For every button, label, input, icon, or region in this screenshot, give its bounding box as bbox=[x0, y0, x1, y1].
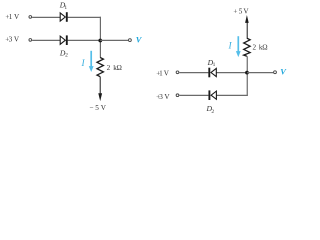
svg-text:2kΩ: 2kΩ bbox=[253, 43, 268, 51]
wire vertical from D1 corner down through junction to resistor bbox=[99, 17, 101, 58]
terminal output V (right) bbox=[274, 71, 277, 74]
wire +1V terminal to diode D1 bbox=[32, 16, 60, 18]
wire +3V terminal to diode D2 (right) bbox=[179, 94, 208, 96]
wire diode D1 anode to junction (right) bbox=[216, 72, 247, 74]
wire +5V arrow down to resistor bbox=[246, 22, 248, 38]
resistor 2 kOhm (left) bbox=[97, 58, 103, 77]
svg-text:2: 2 bbox=[211, 109, 214, 115]
svg-text:1: 1 bbox=[213, 62, 216, 68]
supply arrowhead from +5 V bbox=[245, 15, 249, 23]
current arrow I (left, blue) bbox=[89, 51, 94, 72]
wire vertical from resistor through junction down to D2 corner bbox=[246, 56, 248, 96]
junction node dot (right) bbox=[245, 71, 249, 75]
svg-text:+5V: +5V bbox=[233, 8, 249, 16]
svg-text:+1V: +1V bbox=[5, 13, 20, 21]
svg-text:+1V: +1V bbox=[156, 70, 170, 78]
wire diode D1 cathode to corner bbox=[68, 16, 101, 18]
svg-text:V: V bbox=[280, 67, 287, 77]
wire diode D2 anode to vertical branch corner (right) bbox=[216, 94, 247, 96]
svg-text:+3V: +3V bbox=[156, 93, 170, 101]
svg-text:1: 1 bbox=[64, 5, 67, 11]
svg-text:2: 2 bbox=[65, 53, 68, 59]
diode D1 (right circuit, reversed) bbox=[209, 68, 216, 78]
terminal output V (left) bbox=[129, 39, 132, 42]
svg-text:V: V bbox=[136, 35, 143, 45]
wire +1V terminal to diode D1 (right) bbox=[179, 72, 208, 74]
svg-text:+3V: +3V bbox=[5, 36, 20, 44]
current arrow I (right, blue) bbox=[236, 36, 241, 57]
terminal +1 V input (right) bbox=[176, 71, 179, 74]
wire resistor to -5V supply arrow bbox=[99, 77, 101, 94]
supply arrowhead to -5 V bbox=[98, 93, 102, 101]
wire junction to output terminal V (right) bbox=[247, 72, 273, 74]
terminal +3 V input (left) bbox=[29, 39, 32, 42]
svg-text:2kΩ: 2kΩ bbox=[107, 64, 122, 72]
diode D2 (right circuit, reversed) bbox=[209, 90, 216, 100]
terminal +1 V input (left) bbox=[29, 16, 32, 19]
terminal +3 V input (right) bbox=[176, 94, 179, 97]
resistor 2 kOhm (right) bbox=[244, 38, 250, 56]
wire +3V terminal to diode D2 bbox=[32, 39, 60, 41]
wire junction to output terminal V (left) bbox=[100, 39, 128, 41]
svg-text:−5V: −5V bbox=[89, 104, 106, 112]
diode D2 (left circuit) bbox=[60, 35, 67, 45]
svg-text:I: I bbox=[81, 59, 86, 69]
diode D1 (left circuit) bbox=[60, 12, 67, 22]
wire diode D2 cathode to junction bbox=[68, 39, 101, 41]
svg-text:I: I bbox=[228, 42, 233, 52]
junction node dot (left) bbox=[98, 39, 102, 43]
